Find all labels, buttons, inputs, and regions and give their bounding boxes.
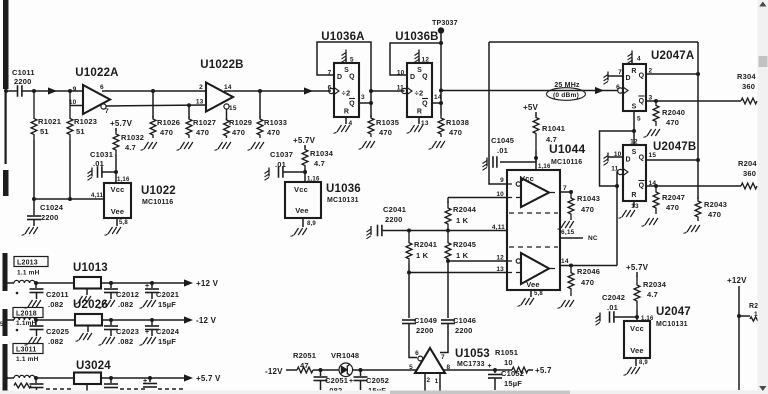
resistor R1041 4.7 bbox=[533, 112, 565, 156]
wire left bus bar row2 bbox=[0, 309, 8, 336]
wire U1022A inverted output 7 (bubble) to U1022B pin 13 bbox=[101, 103, 206, 109]
wire left vertical bus bar (top) bbox=[3, 0, 9, 196]
wire U1036A to U1036B clock bbox=[371, 90, 405, 92]
capacitor C2024 15uF bbox=[145, 320, 180, 346]
resistor R1035 470 bbox=[368, 115, 399, 137]
svg-text:360: 360 bbox=[742, 82, 755, 91]
wire U1036A feedback loop Qbar to D (pin 7) bbox=[317, 42, 371, 117]
svg-text:U1022B: U1022B bbox=[200, 59, 243, 71]
svg-text:470: 470 bbox=[379, 128, 392, 137]
capacitor C3021 partial bbox=[143, 378, 184, 389]
ground for R1026 bbox=[141, 142, 157, 150]
wire U1036A Qbar pin 3 out bbox=[359, 89, 373, 105]
capacitor C2021 15uF bbox=[145, 283, 179, 309]
wire S-node route to clock line bbox=[600, 131, 635, 188]
resistor R1029 470 on U1022B pin 15 bbox=[224, 104, 253, 138]
wire U1044 pin 14 output bbox=[550, 258, 617, 269]
svg-text:.01: .01 bbox=[497, 146, 508, 155]
wire left bus bar row1 bbox=[3, 253, 8, 291]
svg-text:4.7: 4.7 bbox=[546, 135, 557, 144]
op-amp U1022B bbox=[196, 59, 244, 112]
svg-text:+5.7: +5.7 bbox=[535, 366, 552, 375]
op-amp U1053 MC1733 bbox=[415, 348, 490, 373]
wire U2047A Q pin 2 output bbox=[646, 72, 700, 76]
resistor R1033 470 bbox=[257, 91, 287, 138]
svg-text:Vee: Vee bbox=[295, 206, 309, 215]
clock bubble U1036A pin 6 bbox=[329, 88, 339, 95]
label 25 MHz (0 dBm) bbox=[547, 82, 586, 100]
label +5V supply bbox=[523, 103, 539, 112]
svg-text:C2021: C2021 bbox=[156, 290, 179, 299]
resistor R1038 470 bbox=[438, 115, 469, 137]
wire feedback loop U2047A Q to U1044 pin 9 bbox=[489, 42, 698, 184]
capacitor C1049 2200 bbox=[402, 316, 437, 335]
svg-text:U1036: U1036 bbox=[326, 183, 361, 195]
svg-text:+: + bbox=[488, 363, 492, 370]
svg-text:R204: R204 bbox=[738, 159, 757, 168]
capacitor C2023 .082 bbox=[104, 320, 139, 346]
wire U1022A pin10 input wire bbox=[70, 105, 83, 107]
svg-text:470: 470 bbox=[666, 203, 679, 212]
svg-text:R304: R304 bbox=[737, 72, 756, 81]
svg-text:7: 7 bbox=[563, 185, 567, 192]
svg-text:470: 470 bbox=[449, 128, 462, 137]
svg-text:2200: 2200 bbox=[416, 326, 434, 335]
svg-text:U1044: U1044 bbox=[549, 142, 585, 156]
svg-text:R1026: R1026 bbox=[157, 118, 180, 127]
svg-text:4,11: 4,11 bbox=[91, 193, 104, 199]
IC U1044 box bbox=[507, 142, 585, 290]
ground U1022 Vee pin 5,8 bbox=[105, 218, 129, 235]
label +12V output row1 bbox=[184, 279, 219, 288]
wire R1023 leg down to 4,11 wire bbox=[69, 140, 71, 199]
ground U2047 pin 8,9 bbox=[624, 358, 649, 375]
clock bubble U2047B pin 11 bbox=[618, 169, 628, 176]
svg-text:D: D bbox=[626, 75, 631, 82]
svg-text:2: 2 bbox=[427, 377, 431, 384]
zener diode VR1048 bbox=[331, 351, 359, 377]
svg-text:R: R bbox=[631, 68, 636, 75]
svg-text:C1046: C1046 bbox=[453, 316, 476, 325]
capacitor C3023 partial bbox=[104, 378, 146, 389]
svg-text:Q: Q bbox=[422, 74, 428, 81]
svg-text:470: 470 bbox=[708, 210, 721, 219]
resistor R1021 51 bbox=[31, 91, 61, 140]
chassis hatch on U2047A D pin 7 bbox=[604, 72, 624, 85]
label +5.7V supply above R2034 bbox=[626, 263, 649, 272]
svg-text:+5V: +5V bbox=[523, 103, 539, 112]
svg-text:VR1048: VR1048 bbox=[331, 351, 359, 360]
chassis hatch above U2047A R pin 4 bbox=[628, 51, 633, 65]
svg-text:.01: .01 bbox=[607, 303, 618, 312]
wire C1049 leg to U1053 pin 6 bbox=[409, 324, 423, 361]
ground for R1027 bbox=[177, 142, 193, 150]
svg-text:1: 1 bbox=[435, 378, 439, 385]
wire -12V feed bbox=[286, 369, 297, 371]
svg-text:C2024: C2024 bbox=[156, 327, 180, 336]
svg-text:R2034: R2034 bbox=[643, 280, 667, 289]
wire U1036B Qbar pin 14 out bbox=[432, 101, 443, 105]
svg-text:R2: R2 bbox=[749, 303, 758, 310]
svg-text:5,8: 5,8 bbox=[534, 291, 543, 297]
svg-text:7: 7 bbox=[105, 108, 109, 115]
resistor R2034 4.7 bbox=[634, 272, 667, 317]
scrollbar vertical track bbox=[758, 0, 768, 394]
svg-text:47: 47 bbox=[300, 361, 309, 370]
capacitor C2052 15uF bbox=[349, 370, 389, 394]
svg-text:1: 1 bbox=[754, 311, 758, 318]
ground U1036 pin 8,9 bbox=[291, 218, 317, 236]
svg-text:15µF: 15µF bbox=[158, 300, 176, 309]
svg-text:12: 12 bbox=[422, 57, 430, 64]
svg-text:+: + bbox=[349, 378, 353, 385]
svg-text:D: D bbox=[337, 74, 342, 81]
svg-text:R: R bbox=[417, 109, 422, 116]
svg-text:5: 5 bbox=[637, 116, 641, 123]
svg-text:S: S bbox=[632, 104, 637, 111]
svg-text:2200: 2200 bbox=[41, 213, 59, 222]
ground for R1033 bbox=[248, 142, 264, 150]
svg-text:Q: Q bbox=[639, 183, 645, 190]
svg-text:1 K: 1 K bbox=[456, 251, 469, 260]
svg-text:Vee: Vee bbox=[111, 207, 125, 216]
wire U1044 pin 12 wire from R2045 bbox=[446, 259, 507, 263]
wire 25 MHz signal line to U2047A clock bbox=[441, 87, 618, 94]
capacitor C1037 .01 bbox=[265, 150, 308, 180]
svg-text:Q: Q bbox=[422, 101, 428, 108]
resistor R1027 470 bbox=[186, 105, 216, 138]
svg-text:7: 7 bbox=[441, 354, 445, 361]
clock bubble U1036B pin 11 bbox=[402, 88, 412, 95]
flip-flop U2047B box bbox=[623, 141, 696, 201]
label -12V output row2 bbox=[184, 316, 217, 325]
resistor R1023 51 bbox=[67, 91, 97, 140]
svg-text:1,16: 1,16 bbox=[538, 164, 551, 170]
svg-text:L3011: L3011 bbox=[16, 347, 36, 354]
svg-text:+5.7V: +5.7V bbox=[293, 136, 316, 145]
svg-text:U2026: U2026 bbox=[73, 299, 108, 311]
inductor L3011 1.1mH label bbox=[13, 344, 43, 364]
wire U1044 pin 13 wire from R2041 leg bbox=[407, 263, 507, 318]
svg-text:U1022A: U1022A bbox=[75, 67, 118, 79]
svg-text:15: 15 bbox=[229, 105, 237, 112]
wire R1021 leg down to C1024 bbox=[32, 140, 36, 215]
node row2 junctions bbox=[34, 318, 154, 322]
svg-text:.082: .082 bbox=[48, 300, 63, 309]
label U1053 pin 8 bbox=[447, 364, 451, 371]
svg-text:4.7: 4.7 bbox=[647, 290, 658, 299]
ground U1036A reset pin 4 bbox=[334, 117, 350, 133]
wire U1053 pin 2 stub bbox=[425, 373, 431, 394]
svg-text:4.7: 4.7 bbox=[314, 159, 325, 168]
wire C1046 leg to U1053 pin 7 bbox=[440, 324, 448, 362]
svg-text:-12 V: -12 V bbox=[196, 316, 217, 325]
svg-text:S: S bbox=[632, 149, 637, 156]
svg-text:51: 51 bbox=[40, 127, 49, 136]
ground for R2040 bbox=[644, 129, 660, 137]
svg-text:R2051: R2051 bbox=[293, 351, 316, 360]
svg-text:(0 dBm): (0 dBm) bbox=[553, 92, 579, 99]
svg-text:C1052: C1052 bbox=[501, 369, 524, 378]
wire U1022A output 6 to U1022B pin 2 bbox=[102, 89, 206, 93]
label +5.7V output row3 bbox=[184, 374, 221, 383]
svg-text:1.1 mH: 1.1 mH bbox=[16, 356, 39, 363]
wire U1022 pin 4,11 wire bbox=[33, 193, 104, 201]
label U2047B pin numbers bbox=[611, 139, 656, 211]
svg-text:C1049: C1049 bbox=[414, 316, 437, 325]
svg-text:15: 15 bbox=[649, 152, 657, 159]
svg-text:9: 9 bbox=[73, 86, 77, 93]
wire U1044 Vcc pin 1,16 bbox=[536, 158, 551, 170]
capacitor C1045 .01 bbox=[483, 136, 539, 170]
inductor L2013 coil bbox=[8, 280, 75, 294]
svg-text:L2013: L2013 bbox=[17, 260, 38, 267]
capacitor C2011 .082 bbox=[30, 283, 69, 309]
svg-text:Q: Q bbox=[639, 155, 645, 162]
ground for C2024 bbox=[140, 337, 156, 345]
svg-text:MC10131: MC10131 bbox=[656, 321, 688, 328]
svg-text:C2025: C2025 bbox=[46, 327, 69, 336]
svg-text:Q: Q bbox=[349, 101, 355, 108]
wire +12V rail down right side bbox=[737, 286, 741, 390]
svg-text:R2045: R2045 bbox=[453, 240, 476, 249]
svg-text:12: 12 bbox=[630, 139, 638, 146]
svg-text:470: 470 bbox=[232, 128, 245, 137]
svg-text:6,15: 6,15 bbox=[561, 229, 575, 236]
inductor L2013 1.1mH label bbox=[14, 257, 48, 277]
svg-text:R1043: R1043 bbox=[577, 194, 600, 203]
svg-text:U1053: U1053 bbox=[455, 348, 490, 360]
svg-text:360: 360 bbox=[743, 169, 756, 178]
wire U1053 pin 8 output bbox=[443, 368, 512, 372]
label +5.7V supply for R1032 bbox=[110, 119, 133, 128]
resistor R1034 4.7 bbox=[302, 145, 334, 172]
svg-text:R1051: R1051 bbox=[495, 348, 518, 357]
resistor R1026 470 bbox=[150, 91, 180, 138]
svg-text:R1033: R1033 bbox=[264, 118, 287, 127]
wire input wire with arrow to U1022A pin 9 bbox=[32, 87, 83, 94]
resistor R2045 1K bbox=[445, 231, 476, 264]
svg-text:C2012: C2012 bbox=[116, 290, 139, 299]
scrollbar down arrow bbox=[759, 386, 766, 391]
capacitor C3025 partial bbox=[30, 378, 73, 390]
node input node on bus bbox=[4, 89, 17, 93]
wire dashed dividers inside U1044 bbox=[509, 213, 558, 247]
svg-text:Vee: Vee bbox=[526, 280, 540, 289]
wire U2047A Qbar pin 3 output to R304 bbox=[646, 99, 741, 103]
svg-text:R: R bbox=[344, 109, 349, 116]
svg-text:C1045: C1045 bbox=[491, 136, 514, 145]
ground for C2025 bbox=[25, 337, 41, 345]
ground for R1029 bbox=[215, 142, 231, 150]
scrollbar vertical thumb bbox=[759, 56, 768, 67]
svg-text:R1023: R1023 bbox=[74, 117, 97, 126]
inductor L3011 coil bbox=[4, 375, 74, 388]
svg-text:15µF: 15µF bbox=[158, 337, 176, 346]
svg-text:C2042: C2042 bbox=[602, 293, 625, 302]
resistor R1032 4.7 bbox=[113, 128, 144, 172]
wire VR1048 to U1053 pin 5 bbox=[353, 368, 418, 372]
resistor R2 (edge, cut off) bbox=[739, 303, 759, 321]
ground U1036B reset pin 13 bbox=[407, 117, 423, 133]
svg-text:U1036A: U1036A bbox=[321, 31, 364, 43]
capacitor C1046 2200 bbox=[441, 263, 476, 335]
wire U3024 ground stub bbox=[86, 384, 88, 394]
wire U2047A S pin 5 link to U2047B bbox=[632, 111, 636, 145]
svg-text:.082: .082 bbox=[118, 337, 133, 346]
svg-text:U2047A: U2047A bbox=[651, 50, 694, 62]
svg-text:51: 51 bbox=[76, 127, 85, 136]
ground for C2023 bbox=[99, 337, 115, 345]
svg-text:+5.7V: +5.7V bbox=[626, 263, 649, 272]
ground for R2043 bbox=[684, 225, 700, 233]
svg-text:10: 10 bbox=[504, 358, 513, 367]
svg-text:470: 470 bbox=[160, 128, 173, 137]
IC U1022 power box (Vcc/Vee) bbox=[104, 172, 176, 218]
svg-text:R1029: R1029 bbox=[229, 118, 252, 127]
svg-text:15µF: 15µF bbox=[504, 379, 522, 388]
resistor R204 360 (output) bbox=[738, 159, 757, 189]
svg-text:Vcc: Vcc bbox=[111, 185, 125, 194]
node row3 junctions bbox=[34, 376, 152, 380]
svg-text:U1022: U1022 bbox=[141, 185, 176, 197]
svg-text:6: 6 bbox=[415, 350, 419, 357]
svg-text:C2041: C2041 bbox=[383, 205, 406, 214]
svg-text:L2018: L2018 bbox=[16, 311, 37, 318]
svg-text:U2047: U2047 bbox=[656, 306, 691, 318]
wire U2047B Qbar pin 14 output to R204 bbox=[646, 184, 741, 188]
op-amp U1022A (ECL line receiver) bbox=[69, 67, 119, 115]
capacitor C1031 .01 bbox=[88, 150, 119, 180]
svg-text:13: 13 bbox=[631, 203, 639, 210]
flip-flop U1036B box bbox=[395, 31, 438, 117]
svg-text:5,8: 5,8 bbox=[119, 220, 128, 226]
label U1036A pin numbers bbox=[328, 57, 365, 128]
svg-text:MC10116: MC10116 bbox=[142, 199, 173, 206]
svg-text:R: R bbox=[631, 192, 636, 199]
svg-text:C2051: C2051 bbox=[325, 376, 348, 385]
svg-text:14: 14 bbox=[561, 258, 569, 265]
svg-text:U1036B: U1036B bbox=[395, 31, 438, 43]
capacitor C1052 15uF bbox=[488, 363, 525, 390]
svg-text:MC10131: MC10131 bbox=[327, 197, 359, 204]
svg-text:MC10116: MC10116 bbox=[551, 159, 582, 166]
svg-text:1 K: 1 K bbox=[456, 216, 469, 225]
svg-text:+12 V: +12 V bbox=[196, 279, 219, 288]
wire R2051 to VR1048 bbox=[313, 368, 340, 372]
svg-text:.082: .082 bbox=[118, 300, 133, 309]
svg-text:TP3037: TP3037 bbox=[432, 20, 458, 27]
svg-text:2: 2 bbox=[199, 84, 203, 91]
IC U2026 box bbox=[73, 299, 108, 326]
svg-text:R1038: R1038 bbox=[446, 118, 469, 127]
svg-text:C2023: C2023 bbox=[116, 327, 139, 336]
wire U1044 pin 7 output bbox=[550, 185, 573, 194]
label +5.7V supply above R1034 bbox=[293, 136, 316, 145]
capacitor C2051 .082 bbox=[314, 370, 349, 394]
resistor R304 360 (output) bbox=[737, 72, 757, 104]
resistor R1043 470 bbox=[568, 192, 600, 220]
ground for R1038 bbox=[429, 141, 445, 149]
svg-text:R1021: R1021 bbox=[38, 117, 61, 126]
svg-text:9: 9 bbox=[500, 177, 504, 184]
inductor L2018 1.1mH label bbox=[13, 308, 43, 328]
wire U1022B output 14 to U1036A clock bbox=[224, 87, 331, 94]
svg-text:-12V: -12V bbox=[265, 367, 283, 376]
resistor R2043 470 bbox=[695, 197, 727, 221]
chassis hatch above U1036A S pin bbox=[342, 50, 347, 64]
svg-text:Q: Q bbox=[639, 73, 645, 80]
svg-text:14: 14 bbox=[224, 84, 232, 91]
svg-text:R2041: R2041 bbox=[414, 240, 437, 249]
svg-text:+5.7 V: +5.7 V bbox=[196, 374, 221, 383]
svg-text:MC1733: MC1733 bbox=[457, 361, 485, 368]
chassis hatch on U2047B D pin 10 bbox=[604, 153, 624, 166]
resistor R2051 47 bbox=[293, 351, 316, 373]
svg-text:Vcc: Vcc bbox=[294, 185, 308, 194]
svg-text:Vee: Vee bbox=[630, 346, 644, 355]
wire row1 to output bbox=[101, 282, 187, 284]
svg-text:D: D bbox=[410, 74, 415, 81]
capacitor C2012 .082 bbox=[104, 283, 139, 309]
svg-text:2200: 2200 bbox=[385, 215, 403, 224]
capacitor C2041 2200 bbox=[367, 205, 508, 239]
ground for C2012 bbox=[99, 300, 115, 308]
svg-text:4.7: 4.7 bbox=[125, 143, 136, 152]
svg-text:1 K: 1 K bbox=[416, 251, 429, 260]
svg-text:R2044: R2044 bbox=[453, 205, 477, 214]
label U2047A pin numbers bbox=[616, 56, 652, 123]
svg-text:470: 470 bbox=[666, 118, 679, 127]
svg-text:C2052: C2052 bbox=[366, 376, 389, 385]
scrollbar horizontal thumb bbox=[390, 391, 570, 394]
svg-text:5: 5 bbox=[350, 57, 354, 64]
svg-text:470: 470 bbox=[581, 205, 594, 214]
label U1036B pin numbers bbox=[397, 57, 442, 128]
wire row2 to output bbox=[102, 319, 187, 321]
flip-flop U1036A box bbox=[321, 31, 364, 117]
svg-text:D: D bbox=[626, 157, 631, 164]
label +12V supply right bbox=[727, 276, 747, 285]
svg-text:.082: .082 bbox=[48, 337, 63, 346]
svg-text:C1031: C1031 bbox=[90, 150, 113, 159]
resistor R2047 470 bbox=[653, 186, 685, 214]
wire U2047B Q pin 15 output bbox=[646, 158, 700, 162]
resistor R2040 470 bbox=[653, 101, 685, 127]
svg-text:470: 470 bbox=[581, 278, 594, 287]
resistor R1051 10 bbox=[495, 348, 533, 373]
chassis hatch above U1036B S pin bbox=[415, 50, 420, 64]
ground for R1035 bbox=[359, 141, 375, 149]
svg-text:÷2: ÷2 bbox=[415, 89, 424, 98]
svg-text:R2047: R2047 bbox=[662, 193, 685, 202]
wire right vertical from loop down to R2043 bbox=[697, 42, 699, 199]
svg-text:2200: 2200 bbox=[455, 326, 473, 335]
scrollbar up arrow bbox=[759, 2, 766, 7]
ground U2026 case bbox=[76, 326, 92, 342]
svg-text:U3024: U3024 bbox=[76, 360, 111, 372]
ground for R2047 bbox=[642, 218, 658, 226]
svg-text:7: 7 bbox=[618, 69, 622, 76]
label U1053 pin 5 bbox=[409, 364, 413, 371]
svg-text:R2043: R2043 bbox=[704, 200, 727, 209]
ground U2047B reset pin 13 bbox=[619, 201, 635, 218]
IC U1013 box bbox=[73, 262, 108, 289]
wire left bus bar row3 bbox=[3, 344, 8, 394]
wire U1036B feedback loop to D (pin 10) bbox=[390, 43, 441, 75]
clock bubble U2047A pin 6 bbox=[618, 87, 628, 94]
svg-text:C2011: C2011 bbox=[46, 290, 69, 299]
